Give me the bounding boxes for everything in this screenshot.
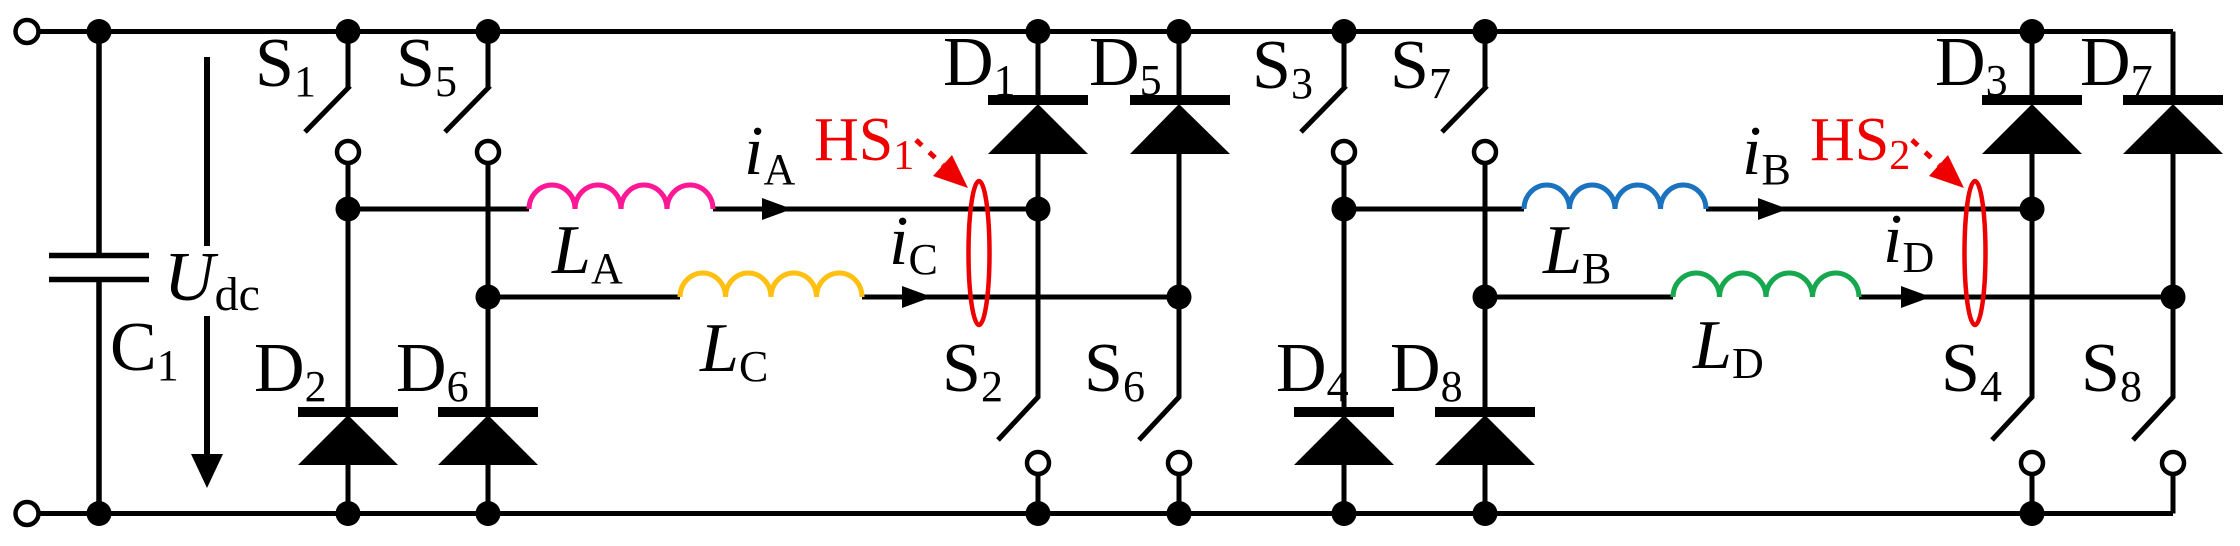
node D3 row B — [2020, 197, 2045, 222]
diode D3 — [1982, 32, 2082, 210]
wire bottom rail — [40, 511, 2173, 516]
voltage arrow Udc line — [204, 57, 210, 460]
node S3 top rail — [1332, 19, 1357, 44]
node D2 bottom rail — [336, 501, 361, 526]
node D5 row C — [1167, 285, 1192, 310]
switch S6 — [1139, 297, 1190, 514]
node bottom rail / cap — [87, 501, 112, 526]
switch S2 — [998, 209, 1049, 514]
inductor LA — [529, 185, 713, 209]
current arrow iD — [1901, 286, 1931, 308]
node S3 row B — [1332, 197, 1357, 222]
node D1 row A — [1026, 197, 1051, 222]
switch S3 — [1301, 32, 1355, 210]
node S5/D6 row C — [476, 285, 501, 310]
node top rail / cap — [87, 19, 112, 44]
node D3 top rail — [2020, 19, 2045, 44]
HS2 dashed arrow — [1912, 140, 1939, 165]
diode D5 — [1130, 32, 1230, 298]
diode D7 — [2123, 32, 2223, 298]
HS1 dashed arrow — [916, 140, 943, 165]
node S7/D8 row D — [1473, 285, 1498, 310]
switch S7 — [1442, 32, 1496, 409]
diode D6 — [438, 412, 538, 514]
node D5 top rail — [1167, 19, 1192, 44]
node D7 row D — [2161, 285, 2186, 310]
node S7 top rail — [1473, 19, 1498, 44]
node S1 top rail — [336, 19, 361, 44]
wire top rail — [40, 29, 2173, 34]
capacitor C1 plates — [49, 256, 149, 280]
node D4 bottom rail — [1332, 501, 1357, 526]
node D8 bottom rail — [1473, 501, 1498, 526]
node D6 bottom rail — [476, 501, 501, 526]
switch S1 — [305, 32, 359, 210]
node S5 top rail — [476, 19, 501, 44]
switch S8 — [2133, 297, 2184, 514]
inductor LD — [1673, 273, 1859, 297]
diode D8 — [1435, 412, 1535, 514]
terminal top-left — [16, 20, 39, 43]
wire row A — [348, 207, 1038, 212]
node D1 top rail — [1026, 19, 1051, 44]
switch S4 — [1992, 209, 2043, 514]
wire row B — [1344, 207, 2032, 212]
node S4 bottom rail — [2020, 501, 2045, 526]
diode D2 — [298, 209, 398, 514]
capacitor C1 branch wire lower — [96, 282, 102, 514]
hall sensor HS1 ellipse — [969, 181, 990, 325]
current arrow iA — [762, 198, 792, 220]
switch S5 — [445, 32, 499, 409]
current arrow iC — [902, 286, 932, 308]
node S1 row A — [336, 197, 361, 222]
hall sensor HS2 ellipse — [1965, 181, 1986, 325]
node S6 bottom rail — [1167, 501, 1192, 526]
capacitor C1 branch wire upper — [96, 32, 102, 254]
wire row D — [1485, 295, 2173, 300]
node S2 bottom rail — [1026, 501, 1051, 526]
diode D4 — [1294, 209, 1394, 514]
inductor LC — [680, 273, 862, 297]
wire row C — [488, 295, 1179, 300]
inductor LB — [1524, 185, 1706, 209]
voltage arrow Udc head — [191, 454, 223, 488]
diode D1 — [988, 32, 1088, 210]
current arrow iB — [1758, 198, 1788, 220]
terminal bottom-left — [16, 502, 39, 525]
